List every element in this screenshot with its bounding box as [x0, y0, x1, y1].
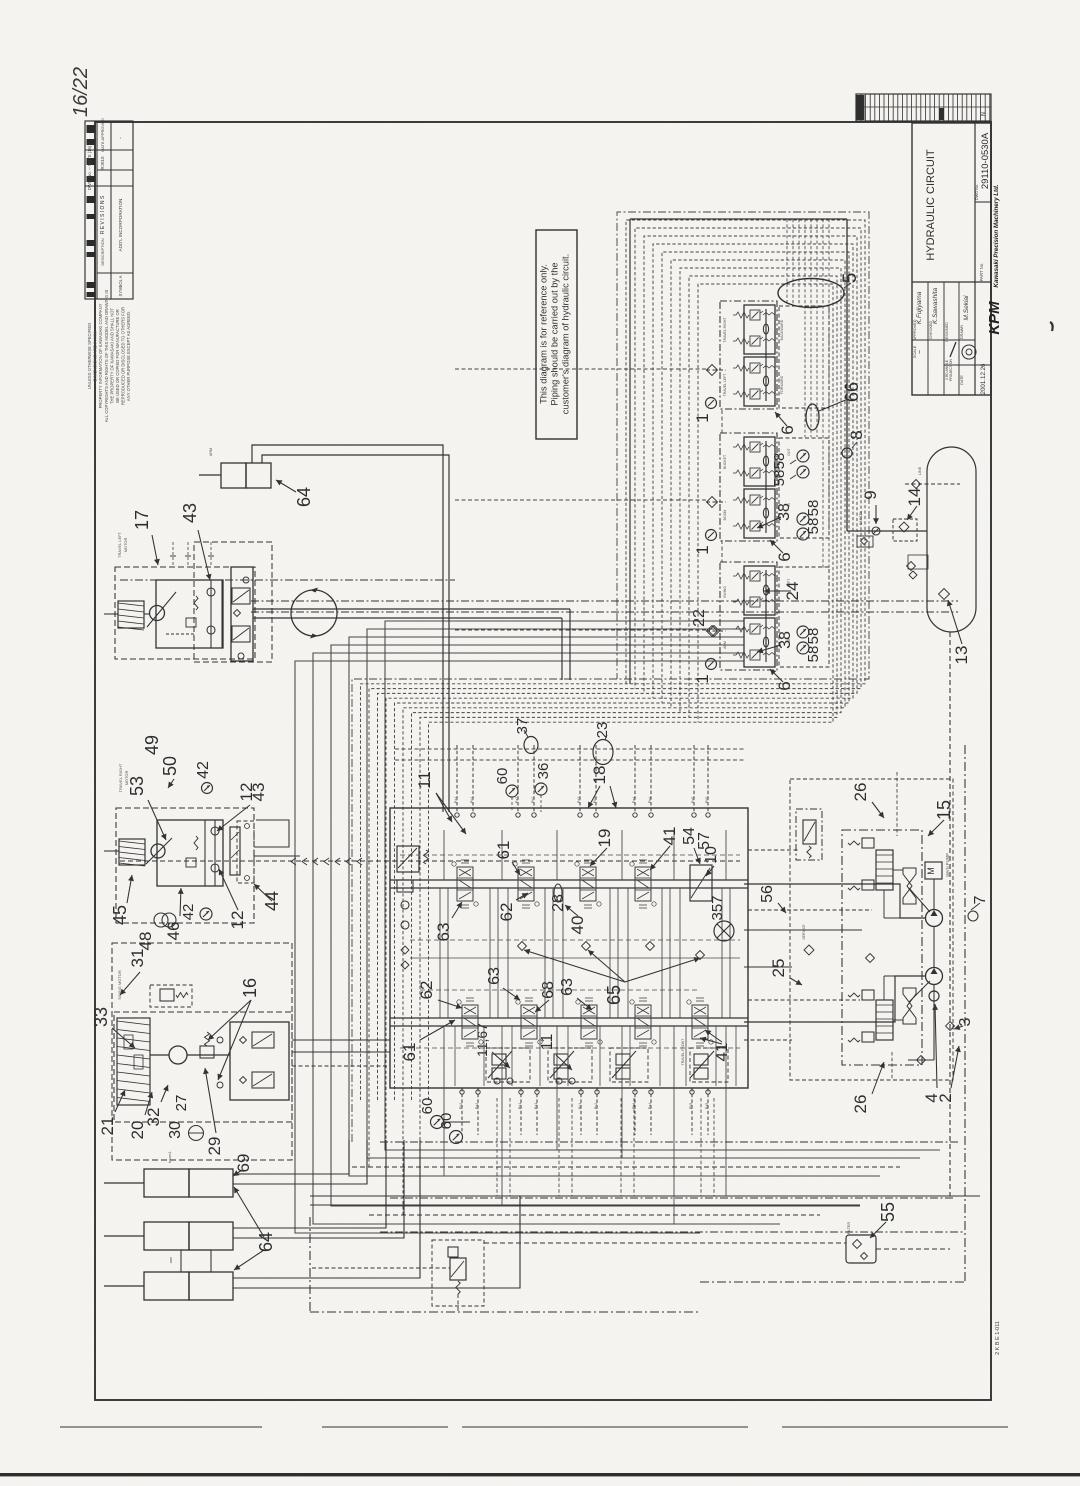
callout 22 with coupling diamond — [709, 626, 720, 637]
title block — [912, 123, 991, 395]
diamond junction symbols mid — [518, 942, 875, 963]
svg-text:Kawasaki Precision Machinery L: Kawasaki Precision Machinery Ltd. — [993, 184, 1000, 287]
callouts 21 20 32 27 30 29 bottom of swing block — [115, 1090, 125, 1112]
svg-text:LINE: LINE — [918, 466, 922, 475]
solenoid valve near tank — [312, 1240, 484, 1312]
solenoid group feed pilot lines — [455, 369, 722, 630]
electric motor box M — [925, 862, 942, 879]
pilot port stub lines lower — [462, 1088, 708, 1135]
capsule diamonds — [907, 562, 916, 571]
svg-text:16: 16 — [240, 978, 260, 998]
pilot relief valve in pump — [796, 809, 822, 860]
upper bank spools — [452, 860, 656, 908]
regulator block lower — [848, 976, 930, 1042]
callout 44 — [254, 884, 272, 901]
svg-text:Pa4: Pa4 — [648, 1103, 652, 1109]
air bleed line with callout 8 — [630, 219, 857, 684]
motor brake valve lines — [166, 580, 222, 648]
travel motor circle right — [146, 838, 172, 864]
callout 2 — [951, 1046, 959, 1088]
svg-text:DESCRIPTION: DESCRIPTION — [100, 238, 105, 265]
gauge 36 with label — [535, 783, 547, 795]
callout 10 — [706, 866, 714, 876]
callout 11 upper with arrows — [436, 793, 452, 822]
svg-text:REPRODUCED OR DISCLOSED TO OTH: REPRODUCED OR DISCLOSED TO OTHERS FOR — [121, 307, 126, 405]
svg-text:Piping should be carried out b: Piping should be carried out by the — [550, 262, 560, 405]
cylinder link box — [181, 1250, 211, 1272]
callout 69 — [233, 1170, 242, 1176]
motor supply lines — [253, 609, 570, 680]
svg-text:43: 43 — [249, 783, 268, 802]
svg-text:Pb1: Pb1 — [470, 797, 474, 803]
svg-text:8: 8 — [847, 430, 866, 439]
drawing border frame — [95, 122, 991, 1400]
svg-text:BOOM: BOOM — [723, 510, 727, 521]
svg-text:49: 49 — [142, 735, 162, 755]
remote control valve group 3 — [612, 1051, 636, 1079]
connection bracket right — [254, 820, 300, 856]
callout 24 — [764, 590, 791, 592]
svg-text:TRAVEL LEFT: TRAVEL LEFT — [117, 531, 122, 558]
svg-text:46: 46 — [164, 922, 183, 941]
travel motor right block — [116, 808, 254, 923]
svg-text:DESIGNED: DESIGNED — [945, 322, 949, 342]
svg-text:M.Sekiai: M.Sekiai — [963, 295, 970, 320]
callout 18 with arrows — [588, 786, 600, 808]
remote control valve group 2 — [550, 1051, 575, 1084]
svg-text:SERVICE: SERVICE — [802, 924, 806, 940]
callout 11-67 lower — [492, 1052, 510, 1068]
svg-text:BE USED OR COPIED FOR MANUFACT: BE USED OR COPIED FOR MANUFACTURE OR — [115, 309, 120, 403]
svg-text:26: 26 — [851, 783, 870, 802]
gauge pair C with 58 labels — [797, 626, 809, 654]
svg-text:18: 18 — [590, 766, 609, 785]
svg-text:33: 33 — [91, 1007, 111, 1027]
svg-text:UNLESS OTHERWISE SPECIFIED: UNLESS OTHERWISE SPECIFIED — [87, 323, 92, 389]
svg-text:Pa2: Pa2 — [515, 797, 519, 803]
KPM logo — [986, 184, 1003, 335]
svg-text:FILTER: FILTER — [847, 1222, 851, 1235]
machine boundary dash-dot lines — [310, 632, 965, 1312]
svg-text:68: 68 — [540, 981, 557, 999]
svg-text:DATE APPROVED: DATE APPROVED — [100, 118, 105, 152]
svg-text:10: 10 — [703, 846, 720, 864]
svg-text:44: 44 — [262, 891, 282, 911]
svg-text:2 K B E 1-011: 2 K B E 1-011 — [995, 1321, 1001, 1355]
travel straight valve — [690, 865, 712, 901]
group side dashed boxes — [779, 306, 829, 667]
callout 38 upper — [757, 517, 781, 528]
svg-text:HYDRAULIC CIRCUIT: HYDRAULIC CIRCUIT — [925, 149, 937, 261]
main line bundle to control valve — [295, 621, 940, 1233]
svg-text:MAIN PUMP: MAIN PUMP — [945, 853, 950, 877]
callout 50 — [167, 781, 169, 783]
pump unit boundary — [790, 779, 953, 1080]
main control valve block body — [390, 808, 748, 1088]
svg-text:ADD'L INCORPORATION: ADD'L INCORPORATION — [118, 199, 123, 252]
pump to valve connections — [744, 850, 926, 1040]
svg-text:22: 22 — [691, 609, 708, 627]
cylinder 64 lower — [104, 1272, 233, 1300]
cylinder with callout 64 top — [199, 463, 271, 488]
circled gauge 42 upper — [202, 783, 213, 794]
callout 12 upper — [217, 805, 250, 831]
svg-text:36: 36 — [535, 763, 552, 780]
callout 5 ellipse — [778, 279, 844, 308]
svg-text:21: 21 — [98, 1117, 117, 1136]
pilot port stub lines upper — [457, 745, 708, 812]
callout 7 gauge — [968, 911, 978, 921]
long drain dash-dot lines — [120, 580, 958, 861]
callout 64 with two arrows — [234, 1187, 264, 1237]
svg-text:60: 60 — [438, 1113, 455, 1130]
svg-text:DWG. No. -- NOTE (16): DWG. No. -- NOTE (16) — [87, 145, 92, 190]
callout 62 lower — [438, 1000, 462, 1008]
svg-text:PART No.: PART No. — [979, 263, 984, 281]
fold mark broken line — [60, 1426, 262, 1428]
svg-text:31: 31 — [128, 949, 147, 968]
callout 6 group G2 — [770, 540, 783, 553]
svg-text:7: 7 — [972, 895, 989, 904]
remote control dashed enclosures — [486, 1048, 728, 1082]
callout 41 upper — [650, 846, 670, 870]
solenoid valve group G3 swing-arm — [706, 562, 778, 670]
svg-text:62: 62 — [497, 903, 516, 922]
svg-text:30: 30 — [167, 1121, 184, 1139]
pilot line bundle from solenoid valve unit — [352, 212, 869, 1232]
svg-text:23: 23 — [594, 722, 611, 739]
microfilm scale strip — [856, 94, 991, 121]
valve block port circles — [455, 813, 710, 1094]
solenoid group side labels — [723, 317, 791, 649]
svg-text:25: 25 — [769, 959, 788, 978]
svg-text:DIMENSIONS ARE IN MM.: DIMENSIONS ARE IN MM. — [93, 331, 98, 382]
svg-text:13: 13 — [952, 646, 971, 665]
callout 15 — [928, 820, 944, 836]
port labels upper row — [454, 797, 709, 803]
valve block internal passages — [400, 830, 740, 1224]
svg-text:63: 63 — [559, 978, 576, 996]
callout 33 — [112, 1028, 135, 1048]
svg-text:16/22: 16/22 — [70, 67, 92, 117]
svg-text:Pa3: Pa3 — [577, 797, 581, 803]
callout 61 lower — [420, 1020, 455, 1040]
svg-text:RJ010: RJ010 — [100, 156, 105, 170]
svg-text:K.Sawashita: K.Sawashita — [932, 288, 939, 325]
signature cells — [913, 288, 987, 395]
svg-text:Pa2: Pa2 — [475, 1103, 479, 1109]
svg-text:60: 60 — [494, 768, 511, 785]
swing gearbox hatched — [117, 1018, 150, 1105]
svg-text:Pb5: Pb5 — [705, 797, 709, 803]
callout 19 — [590, 848, 607, 866]
svg-text:12: 12 — [228, 911, 247, 930]
svg-text:BUCKET: BUCKET — [723, 454, 727, 469]
callout 41 lower — [705, 1030, 722, 1042]
svg-text:ARM: ARM — [209, 448, 213, 456]
regulator block upper — [848, 838, 930, 918]
svg-text:9: 9 — [861, 490, 880, 499]
svg-text:11: 11 — [415, 771, 434, 789]
svg-text:38: 38 — [777, 631, 794, 649]
svg-text:Pa5: Pa5 — [691, 797, 695, 803]
callout 26 upper — [872, 802, 884, 818]
callout 48 with circle — [154, 913, 168, 927]
gearbox hatched block right — [104, 839, 145, 866]
svg-text:62: 62 — [417, 981, 436, 1000]
svg-text:K.Fujiyama: K.Fujiyama — [916, 291, 923, 324]
svg-text:ANY OTHER PURPOSE EXCEPT AS AG: ANY OTHER PURPOSE EXCEPT AS AGREED. — [126, 311, 131, 401]
svg-text:63: 63 — [434, 923, 453, 942]
scanner page edge line — [0, 1473, 1080, 1476]
valve block lower verticals — [455, 1026, 736, 1086]
svg-text:1: 1 — [693, 674, 712, 683]
svg-text:Pa5: Pa5 — [705, 1103, 709, 1109]
svg-text:1: 1 — [693, 545, 712, 554]
callout 54 — [694, 848, 700, 864]
svg-text:THE PROPERTY OF KAWASAKI AND S: THE PROPERTY OF KAWASAKI AND SHALL NOT — [109, 307, 114, 404]
svg-text:TRAVEL RIGHT: TRAVEL RIGHT — [118, 763, 123, 792]
svg-text:11: 11 — [539, 1034, 556, 1051]
svg-text:64: 64 — [294, 487, 314, 507]
svg-text:56: 56 — [759, 885, 776, 903]
svg-text:1: 1 — [693, 413, 712, 422]
svg-text:TRAVEL RIGHT: TRAVEL RIGHT — [723, 317, 727, 343]
svg-text:5: 5 — [840, 273, 861, 284]
svg-text:15: 15 — [934, 800, 954, 820]
callout 4 — [935, 1004, 937, 1088]
callout 11 lower — [556, 1055, 572, 1070]
svg-text:50: 50 — [160, 756, 180, 776]
gauge pair B with 58 labels — [797, 513, 809, 540]
svg-text:Pb1: Pb1 — [518, 1103, 522, 1109]
svg-text:29: 29 — [205, 1137, 224, 1156]
svg-text:BACKWARD: BACKWARD — [780, 319, 784, 340]
svg-text:Pa1: Pa1 — [454, 797, 458, 803]
travel motor circle — [144, 592, 176, 627]
svg-text:58: 58 — [771, 453, 788, 470]
svg-text:24: 24 — [783, 582, 802, 601]
svg-text:357: 357 — [709, 895, 726, 920]
svg-text:41: 41 — [660, 827, 679, 846]
sub valve with callout 14 — [893, 519, 917, 541]
callout 68 — [535, 1000, 549, 1012]
svg-text:boom1: boom1 — [168, 1151, 172, 1163]
svg-text:Pa1: Pa1 — [534, 1103, 538, 1109]
pilot drop lines into solenoid groups — [787, 219, 829, 568]
callout 53 — [148, 800, 166, 840]
callout 63 lower-left — [503, 988, 520, 1000]
svg-text:42: 42 — [180, 904, 197, 921]
callout 16 with two arrows — [208, 1000, 251, 1040]
solenoid valve group G1 travel — [706, 301, 778, 409]
svg-text:53: 53 — [127, 776, 147, 796]
svg-text:61: 61 — [400, 1043, 419, 1062]
svg-text:55: 55 — [878, 1202, 898, 1222]
callout 41 left arrow — [700, 1038, 722, 1044]
svg-text:R E V I S I O N S: R E V I S I O N S — [100, 195, 106, 234]
callout 66 ellipse — [806, 404, 819, 430]
pump circle 1 — [926, 879, 943, 927]
svg-text:Pb2: Pb2 — [531, 797, 535, 803]
accumulator capsule — [927, 447, 976, 632]
regulator pilot dash lines — [892, 772, 897, 1080]
pilot feed dashed horizontals above valve — [395, 749, 745, 760]
svg-text:61: 61 — [494, 841, 513, 860]
lower bank spools — [457, 998, 713, 1046]
svg-text:19: 19 — [595, 829, 614, 848]
counterbalance right — [230, 821, 254, 883]
svg-text:Pc1: Pc1 — [578, 1103, 582, 1109]
svg-text:64: 64 — [256, 1232, 276, 1252]
swing motor to valve connectors — [292, 1040, 390, 1066]
svg-text:27: 27 — [173, 1095, 190, 1112]
callout 63 upper — [452, 902, 462, 918]
cylinder 64 middle — [104, 1222, 233, 1250]
svg-text:DRAWN: DRAWN — [960, 325, 964, 339]
svg-text:CANCEL: CANCEL — [859, 511, 863, 526]
revision table block — [85, 118, 133, 299]
svg-text:60: 60 — [419, 1098, 436, 1115]
pump circle 2 — [926, 927, 943, 985]
svg-text:37: 37 — [514, 718, 531, 735]
svg-text:14: 14 — [905, 488, 924, 507]
check valve on capsule with callout 13 — [939, 589, 950, 600]
svg-text:45: 45 — [110, 905, 130, 925]
motor right brake valve — [186, 820, 219, 886]
svg-text:Pa4: Pa4 — [632, 797, 636, 803]
svg-text:63: 63 — [486, 967, 503, 985]
svg-text:PROJECTION: PROJECTION — [949, 359, 953, 381]
gearbox hatched block left — [104, 601, 144, 630]
svg-text:MOTOR: MOTOR — [123, 537, 128, 552]
svg-text:ARM: ARM — [723, 641, 727, 649]
port ticks top — [170, 542, 214, 567]
svg-text:66: 66 — [842, 382, 862, 402]
svg-text:Pb5: Pb5 — [689, 1103, 693, 1109]
callout 6 group G1 — [775, 412, 787, 426]
callout 37 ellipse — [524, 737, 538, 754]
svg-text:2001.12.26: 2001.12.26 — [980, 363, 987, 395]
svg-text:~: ~ — [917, 350, 924, 354]
svg-text:Pb2: Pb2 — [459, 1103, 463, 1109]
junction circle — [291, 588, 337, 639]
callout 56 with diamond — [804, 945, 814, 955]
callout 45 — [127, 875, 132, 903]
svg-text:TRAVEL LEFT: TRAVEL LEFT — [723, 373, 727, 397]
svg-text:48: 48 — [136, 932, 155, 951]
callout 46 — [180, 888, 181, 916]
svg-text:11,67: 11,67 — [474, 1023, 490, 1057]
svg-text:42: 42 — [195, 761, 212, 779]
gear pump small — [929, 985, 939, 1001]
svg-text:SWING: SWING — [723, 586, 727, 598]
svg-text:32: 32 — [144, 1108, 163, 1127]
callout 12 lower — [219, 869, 238, 910]
svg-text:43: 43 — [180, 503, 200, 523]
remote control valve group 4 — [690, 1051, 714, 1079]
valve block left components — [397, 846, 429, 969]
supply lines from pilot pump cylinder — [252, 445, 449, 812]
svg-text:ALL COPYRIGHTS AND RIGHTS OF T: ALL COPYRIGHTS AND RIGHTS OF THIS MODEL … — [104, 290, 109, 423]
port labels lower row — [459, 1103, 709, 1109]
svg-text:3: 3 — [957, 1017, 974, 1026]
callout 26 lower — [872, 1062, 884, 1094]
svg-text:2: 2 — [936, 1093, 955, 1102]
callout 17 — [152, 535, 158, 565]
svg-text:This diagram is for reference: This diagram is for reference only. — [539, 264, 549, 404]
svg-text:customer's diagram of hydrauli: customer's diagram of hydraulic circuit. — [561, 254, 571, 414]
svg-text:FORWARD: FORWARD — [780, 375, 784, 394]
svg-text:DWG No.: DWG No. — [975, 184, 979, 200]
svg-text:58: 58 — [805, 500, 822, 517]
svg-text:DATE: DATE — [960, 375, 964, 385]
svg-text:SYMBOL A: SYMBOL A — [118, 275, 123, 296]
bottom distribution lines — [352, 1142, 965, 1232]
svg-text:6: 6 — [775, 552, 794, 561]
svg-text:58: 58 — [805, 646, 822, 663]
reference note box — [536, 230, 577, 439]
svg-text:40: 40 — [568, 916, 587, 935]
counterbalance valve block — [231, 567, 253, 661]
pump suction strainer — [908, 985, 934, 1065]
svg-text:58: 58 — [805, 518, 822, 535]
svg-text:6: 6 — [775, 681, 794, 690]
travel motor left block — [115, 542, 272, 662]
svg-text:58: 58 — [805, 628, 822, 645]
svg-text:38: 38 — [776, 503, 793, 521]
callout 3 pump — [954, 1026, 963, 1029]
callout 31 — [120, 972, 140, 995]
svg-text:6: 6 — [778, 425, 797, 434]
svg-text:29110-0530A: 29110-0530A — [980, 132, 991, 189]
air breather assembly with callout 9 — [847, 527, 927, 547]
remote control output drop lines — [497, 1098, 714, 1196]
swing motor block — [112, 943, 292, 1160]
svg-text:PROPERTY INFORMATION OF KAWASA: PROPERTY INFORMATION OF KAWASAKI COMPANY — [98, 303, 103, 408]
callout 357 motor symbol — [714, 921, 734, 941]
gauge 60 upper with label — [511, 797, 513, 812]
svg-text:SWING MOTOR: SWING MOTOR — [117, 970, 122, 1000]
callout 38 lower — [757, 645, 781, 652]
general notes text block — [87, 290, 131, 423]
svg-text:KPM: KPM — [986, 301, 1003, 335]
callout 62 upper — [516, 893, 528, 900]
svg-text:26: 26 — [851, 1095, 870, 1114]
svg-text:M: M — [926, 867, 936, 875]
swing motor circle — [150, 1046, 230, 1064]
callout 6 group G3 — [770, 669, 783, 682]
callout 40 — [565, 905, 578, 916]
remote control valve group 1 — [488, 1051, 513, 1084]
svg-text:69: 69 — [234, 1154, 253, 1173]
swing relief box 31 — [150, 985, 192, 1007]
cylinder 69 — [104, 1169, 233, 1197]
relief parts below capsule — [908, 555, 928, 579]
svg-text:58: 58 — [771, 470, 788, 487]
svg-text:28: 28 — [550, 894, 567, 912]
return filter with callout 55 — [846, 1235, 876, 1263]
svg-text:N: N — [981, 112, 987, 116]
callout 25 — [790, 978, 802, 985]
crossing arrows on bus — [291, 858, 362, 865]
svg-text:Pc2: Pc2 — [594, 1103, 598, 1109]
callout 23 ellipse — [593, 740, 613, 765]
speck mark — [1050, 322, 1053, 331]
svg-text:TRAVEL FRONT: TRAVEL FRONT — [681, 1038, 685, 1066]
callout 61 upper — [512, 862, 520, 875]
svg-text:arm: arm — [169, 1257, 173, 1264]
